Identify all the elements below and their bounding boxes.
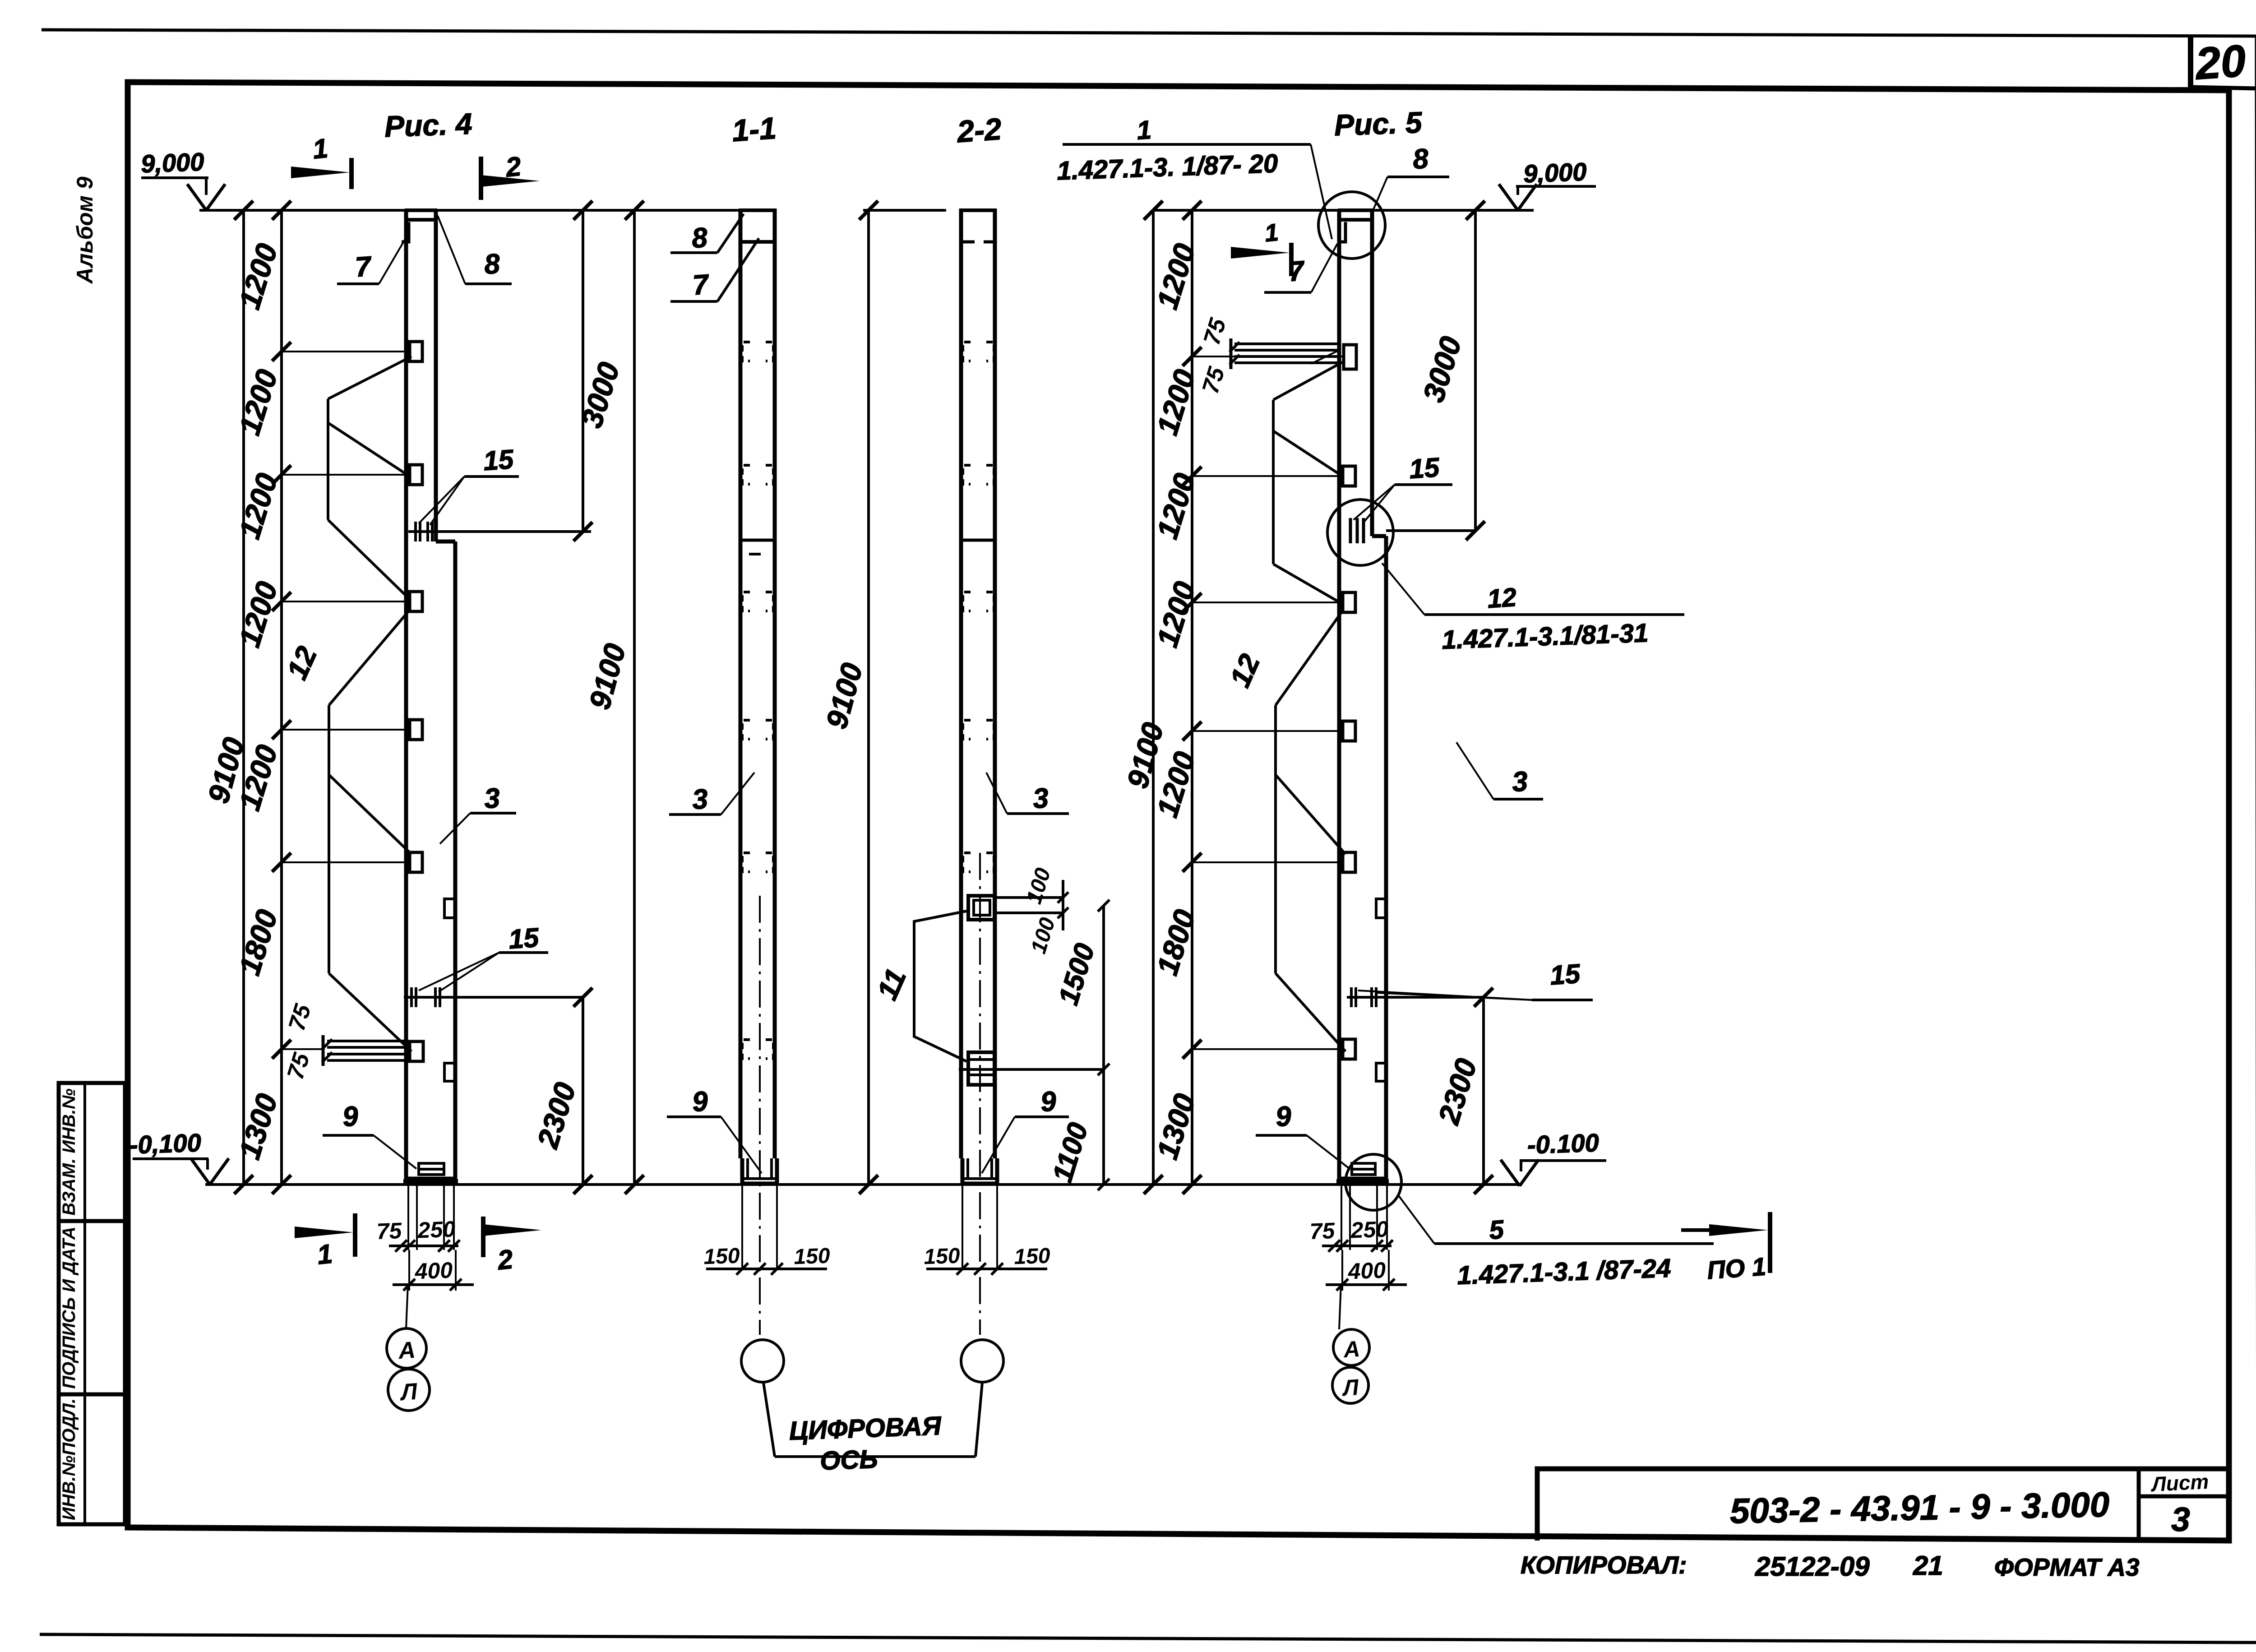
bottom extensions + 150 150 dims (1-1) [741, 1184, 743, 1269]
cap 1-1 [739, 208, 777, 212]
chain tick at 1335 (Ris5) [1183, 593, 1202, 612]
dashed brackets at 779 (2-2) [963, 342, 971, 361]
svg-text:15: 15 [508, 922, 541, 955]
column Рис.5 cap [1338, 208, 1373, 212]
dashed bracket right edge 1 (Ris5) [1376, 899, 1386, 918]
svg-text:8: 8 [483, 248, 501, 280]
section mark 1 (bottom) [353, 1213, 357, 1257]
chain tick at 1055 (Ris5) [1183, 467, 1202, 486]
column Рис.5 left edge [1337, 209, 1341, 1156]
weld angle mark 7 (Ris4) [402, 222, 409, 242]
bottom extensions + 150 150 dims (2-2) [962, 1184, 963, 1269]
dim line 9100 (2-2) [867, 210, 870, 1185]
svg-text:3: 3 [691, 783, 709, 815]
column Рис.4 cap [405, 208, 437, 212]
svg-text:9: 9 [1040, 1086, 1058, 1118]
bottom edge line [40, 1634, 2256, 1643]
chain tick at 1617 [272, 720, 291, 739]
embed bracket at 1617 (Ris4) [410, 720, 422, 740]
dim 1500 (2-2) [1102, 906, 1105, 1069]
embed bracket at 2325 (Ris5) [1343, 1039, 1355, 1059]
dim 400 (Ris4) [408, 1250, 410, 1291]
section mark 2 (bottom) [481, 1217, 485, 1257]
column Рис.4 right edge lower [453, 541, 458, 1156]
dim line 9100 (Ris5) [1152, 210, 1155, 1185]
ticks on top datum [234, 201, 253, 220]
svg-text:2: 2 [504, 151, 522, 183]
svg-text:21: 21 [1913, 1550, 1943, 1581]
svg-text:Рис. 4: Рис. 4 [384, 107, 473, 143]
svg-text:Л: Л [1341, 1374, 1360, 1401]
axis circles А Л (Ris4) [406, 1285, 408, 1328]
extension line to bracket [282, 861, 410, 863]
embed bracket at 1335 (Ris5) [1343, 592, 1355, 612]
axis circle (1-1) [741, 1340, 784, 1382]
svg-text:Лист: Лист [2150, 1470, 2210, 1496]
step line (2-2) [961, 539, 995, 542]
top datum line (Ris4 to 1-1) [199, 209, 774, 212]
svg-text:15: 15 [1408, 452, 1441, 485]
chain tick at 2325 [272, 1040, 291, 1059]
embed bracket at 1333 (Ris4) [410, 592, 422, 611]
svg-text:1: 1 [1263, 219, 1280, 247]
svg-text:1: 1 [311, 133, 329, 165]
dim 3000 (Ris4) [582, 210, 584, 532]
svg-text:ОСЬ: ОСЬ [819, 1444, 878, 1476]
cap 2-2 [959, 208, 997, 212]
column 2-2 outline [959, 209, 963, 1158]
extension line to bracket [282, 351, 410, 352]
weld line lower + 2300 dim (Ris4) [404, 996, 583, 999]
dim line 9100 (1-1) [633, 210, 636, 1185]
digital axis callout [763, 1383, 775, 1457]
svg-text:-0,100: -0,100 [129, 1128, 202, 1159]
svg-text:15: 15 [1549, 958, 1582, 991]
svg-text:ПОДПИСЬ И ДАТА: ПОДПИСЬ И ДАТА [59, 1226, 79, 1389]
chain tick at 1052 [272, 465, 291, 484]
dashed brackets at 1052 (2-2) [963, 465, 971, 484]
svg-text:20: 20 [2193, 35, 2247, 89]
svg-text:15: 15 [482, 444, 515, 477]
chain tick at 790 (Ris5) [1183, 347, 1202, 366]
stamp boxes left [59, 1083, 125, 1221]
chain tick at 2325 (Ris5) [1183, 1040, 1202, 1059]
dim 1100 (2-2) [1102, 1069, 1105, 1185]
svg-text:12: 12 [1486, 583, 1517, 614]
dim line 9100 (Ris4) [242, 210, 245, 1185]
top edge line [42, 30, 2256, 36]
svg-text:25122-09: 25122-09 [1755, 1551, 1870, 1582]
section mark ПО 1 (bottom Ris5) [1768, 1212, 1772, 1273]
page number box 20 [2188, 36, 2193, 88]
chain tick at 1911 (Ris5) [1183, 853, 1202, 872]
dashed brackets at 1617 (1-1) [742, 720, 750, 739]
dim 3000 (Ris5) [1474, 210, 1477, 531]
dashed brackets at 1911 (1-1) [742, 853, 750, 872]
dims 75 250 (Ris4) [407, 1181, 409, 1250]
dashed brackets at 1052 (1-1) [742, 465, 750, 484]
column 1-1 outline [739, 209, 743, 1158]
chain tick at 1911 [272, 853, 291, 872]
svg-text:КОПИРОВАЛ:: КОПИРОВАЛ: [1521, 1551, 1687, 1579]
base shoe (Ris4) [406, 1156, 455, 1179]
dashed brackets at 2325 (1-1) [742, 1040, 750, 1059]
dims 75 250 (Ris5) [1341, 1181, 1342, 1250]
bottom chain ticks [234, 1175, 253, 1194]
column Рис.5 right edge upper [1370, 210, 1374, 536]
svg-text:ПО 1: ПО 1 [1706, 1252, 1767, 1285]
column Рис.4 left edge [404, 209, 408, 1156]
svg-text:5: 5 [1488, 1215, 1505, 1245]
embed bracket at 779 (Ris4) [410, 342, 422, 361]
svg-text:9: 9 [1275, 1101, 1293, 1133]
title block [1537, 1469, 2229, 1541]
svg-text:Альбом 9: Альбом 9 [72, 176, 97, 284]
dashed brackets at 1911 (2-2) [963, 853, 971, 872]
extension line to bracket [282, 601, 410, 602]
fixing element 11 upper (2-2) [968, 896, 994, 920]
svg-text:3: 3 [1511, 766, 1529, 798]
embed bracket at 1911 (Ris5) [1343, 852, 1355, 872]
svg-text:А: А [1342, 1336, 1361, 1363]
svg-text:9: 9 [342, 1101, 360, 1133]
column Рис.4 right edge upper [434, 210, 438, 541]
svg-text:2-2: 2-2 [955, 112, 1003, 149]
svg-text:250: 250 [417, 1217, 456, 1243]
column Рис.5 right edge lower [1384, 536, 1388, 1156]
svg-text:1: 1 [316, 1239, 334, 1270]
dashed brackets at 1333 (1-1) [742, 592, 750, 611]
svg-text:3: 3 [1032, 782, 1049, 814]
extension line to bracket [282, 474, 410, 476]
axis circles А Л (Ris5) [1339, 1285, 1341, 1329]
svg-text:9,000: 9,000 [140, 148, 204, 178]
tie rod set lower (Ris4) [329, 611, 408, 705]
chain tick at 779 [272, 342, 291, 361]
svg-text:ФОРМАТ А3: ФОРМАТ А3 [1994, 1553, 2140, 1581]
chain tick at 1333 [272, 592, 291, 611]
svg-text:400: 400 [1347, 1258, 1387, 1284]
svg-text:150: 150 [924, 1244, 961, 1269]
svg-text:150: 150 [703, 1244, 740, 1269]
svg-text:-0.100: -0.100 [1527, 1128, 1600, 1159]
svg-text:1: 1 [1136, 115, 1152, 145]
section mark 1 (Ris5 top) [1289, 243, 1294, 276]
svg-text:150: 150 [1014, 1244, 1051, 1269]
center axis line (1-1) [759, 896, 761, 1335]
svg-text:Л: Л [398, 1379, 419, 1406]
weld line upper (Ris4) [408, 530, 591, 533]
tie rod set upper (Ris4) [328, 356, 411, 399]
fixing element 11 lower (2-2) [968, 1052, 994, 1085]
dashed bracket right edge 1 (Ris4) [444, 899, 455, 918]
detail circle cap (Ris5) [1318, 192, 1385, 259]
svg-text:ИНВ.№ПОДЛ.: ИНВ.№ПОДЛ. [59, 1398, 79, 1520]
svg-text:2: 2 [496, 1244, 514, 1276]
chain tick at 1620 (Ris5) [1183, 722, 1202, 740]
dashed brackets at 1617 (2-2) [963, 720, 971, 739]
svg-text:А: А [397, 1337, 416, 1365]
svg-text:Рис. 5: Рис. 5 [1334, 106, 1423, 142]
svg-text:3: 3 [483, 782, 501, 814]
svg-text:1-1: 1-1 [731, 111, 777, 148]
detail circle step (Ris5) [1327, 500, 1393, 565]
svg-text:ВЗАМ. ИНВ.№: ВЗАМ. ИНВ.№ [59, 1088, 79, 1216]
axis circle (2-2) [961, 1340, 1003, 1382]
top datum line (Ris5) [1153, 209, 1534, 212]
svg-text:8: 8 [691, 222, 709, 254]
base channel (2-2) [962, 1158, 997, 1184]
extension line to bracket [282, 729, 410, 731]
svg-text:75: 75 [376, 1218, 403, 1244]
svg-text:9,000: 9,000 [1523, 157, 1587, 188]
dashed brackets at 779 (1-1) [742, 342, 750, 361]
column Рис.4 step [436, 540, 455, 544]
section mark 2 (top) [479, 157, 483, 200]
dashed brackets at 1333 (2-2) [963, 592, 971, 611]
label 11 polyline (2-2) [914, 911, 966, 1061]
column Рис.5 step [1372, 534, 1386, 538]
embed bracket at 1055 (Ris5) [1343, 466, 1355, 486]
center axis line (2-2) [979, 853, 981, 1335]
weld marks at step (Ris5) [1349, 518, 1352, 543]
weld line lower + 2300 dim (Ris5) [1347, 996, 1484, 999]
tie rod set upper (Ris5) [1273, 361, 1345, 400]
anchor bracket with plates 75/75 (Ris4) [410, 1041, 423, 1061]
step line (1-1) [740, 539, 775, 542]
svg-text:ЦИФРОВАЯ: ЦИФРОВАЯ [789, 1411, 943, 1446]
section mark 1 (top) [349, 158, 354, 189]
dim 400 (Ris5) [1341, 1250, 1343, 1291]
dim chain line (Ris4) [280, 210, 283, 1185]
anchor bracket with plates 75/75 (Ris5) [1344, 345, 1356, 369]
embed bracket at 1911 (Ris4) [410, 852, 422, 872]
dashed bracket right edge 2 (Ris4) [444, 1063, 455, 1081]
embed bracket at 1620 (Ris5) [1343, 721, 1355, 741]
svg-text:150: 150 [794, 1244, 831, 1269]
dim chain line (Ris5) [1191, 210, 1193, 1185]
svg-text:9: 9 [691, 1086, 709, 1118]
svg-text:250: 250 [1350, 1217, 1389, 1243]
svg-text:400: 400 [414, 1258, 453, 1284]
svg-text:3: 3 [2171, 1500, 2190, 1538]
base channel (1-1) [742, 1158, 777, 1184]
dim 100 100 (2-2) [1062, 880, 1064, 930]
detail circle base (Ris5) [1345, 1154, 1401, 1210]
extension line to anchor bracket [282, 1048, 323, 1050]
svg-text:75: 75 [1309, 1218, 1336, 1244]
tie rod set lower (Ris5) [1276, 612, 1341, 705]
bottom datum line [205, 1183, 1521, 1186]
embed bracket at 1052 (Ris4) [410, 465, 422, 485]
svg-text:8: 8 [1412, 143, 1430, 175]
dashed bracket right edge 2 (Ris5) [1376, 1063, 1386, 1081]
svg-text:503-2 - 43.91 - 9 - 3.000: 503-2 - 43.91 - 9 - 3.000 [1729, 1485, 2110, 1531]
base shoe (Ris5) [1339, 1156, 1386, 1179]
weld angle mark 7 (Ris5) [1338, 222, 1345, 242]
